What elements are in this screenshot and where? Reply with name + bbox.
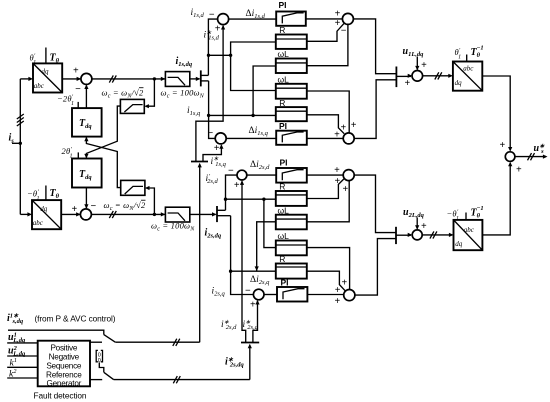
- summing junction SUM2q: [344, 290, 355, 301]
- wire: i'_2s,d branch to R3 and wL4: [226, 199, 276, 247]
- svg-text:Δi2s,q: Δi2s,q: [250, 275, 270, 286]
- svg-text:R: R: [279, 182, 285, 192]
- slash marks before TB4: [430, 231, 437, 238]
- wire: R2 out diagonal into SUM1q: [307, 115, 344, 134]
- svg-text:R: R: [279, 98, 285, 108]
- svg-text:i′2s,d: i′2s,d: [206, 173, 219, 185]
- filter block F2 (wc=100wN): [165, 207, 189, 222]
- block wL2: [276, 84, 307, 99]
- block wL1: [276, 59, 307, 74]
- wire: wL1 out up into SUM1d bottom: [307, 25, 348, 66]
- wire: SUM2d out to mux2: [354, 175, 396, 233]
- svg-text:is: is: [9, 133, 15, 145]
- block R2: [276, 107, 307, 121]
- svg-text:PI: PI: [279, 121, 287, 131]
- block wL3: [276, 215, 307, 230]
- svg-text:Generator: Generator: [46, 379, 81, 388]
- svg-text:Tθ: Tθ: [50, 188, 60, 200]
- svg-text:Tθ: Tθ: [50, 53, 60, 65]
- wire: i*_2s,dq rising line: [249, 345, 251, 380]
- wire: R4 out diagonal down into SUM2q: [307, 271, 345, 291]
- svg-text:−: −: [228, 165, 234, 176]
- wire: S2 out to filter F2: [91, 213, 165, 215]
- slash marks on output: [528, 153, 535, 160]
- svg-text:+: +: [234, 180, 240, 191]
- wire: rail to abc-dq box 2: [20, 213, 28, 215]
- node i_s tap: [12, 142, 20, 144]
- wire: u*_s output: [515, 156, 546, 158]
- wire: RF2 output crossing up into T_dq1 input: [86, 138, 120, 188]
- 3-phase slash marks on rail: [17, 114, 24, 126]
- wire: tap into RF1: [146, 79, 154, 106]
- svg-text:i∗2s,dq: i∗2s,dq: [225, 356, 244, 368]
- svg-text:+: +: [334, 129, 340, 140]
- svg-text:Fault detection: Fault detection: [34, 390, 87, 400]
- final summing junction: [505, 152, 515, 162]
- svg-text:abc: abc: [464, 226, 475, 234]
- svg-text:ωL: ωL: [278, 205, 290, 215]
- wire: S2d out to PI3: [247, 174, 276, 176]
- svg-text:+: +: [334, 176, 340, 187]
- svg-text:+: +: [516, 165, 522, 176]
- filter block F1 (wc=100wN): [165, 72, 189, 87]
- wire: u_1L,dq arrow down into circle: [416, 57, 418, 70]
- svg-text:i∗2s,d: i∗2s,d: [221, 319, 237, 331]
- svg-text:u1L,dq: u1L,dq: [8, 332, 26, 345]
- wire: PI3 out to SUM2d: [307, 174, 343, 176]
- svg-text:i1s,dq: i1s,dq: [176, 56, 193, 68]
- svg-text:+: +: [215, 24, 221, 35]
- svg-text:i2s,dq: i2s,dq: [205, 227, 222, 239]
- summing junction SUM1d: [342, 13, 353, 24]
- svg-text:abc: abc: [463, 64, 474, 72]
- svg-text:+: +: [335, 18, 341, 29]
- svg-text:+: +: [351, 120, 357, 131]
- summing junction SUM1q: [343, 133, 354, 144]
- theta1 angle stub into box 1: [45, 48, 47, 64]
- wire: S1q out to PI2: [226, 137, 276, 139]
- wire: T_dq1 output up into S1: [85, 86, 87, 109]
- mux1 bar: [395, 67, 397, 88]
- svg-text:Positive: Positive: [50, 343, 77, 352]
- svg-text:i1∗s,dq: i1∗s,dq: [7, 313, 24, 326]
- svg-text:Δi1s,q: Δi1s,q: [249, 126, 269, 137]
- wire: R1 out diagonal into SUM1d: [307, 24, 344, 42]
- svg-text:−: −: [341, 26, 347, 37]
- svg-text:+: +: [342, 184, 348, 195]
- lowpass block RF2 (wc=wN/sqrt2): [121, 180, 145, 195]
- summing junction S1d: [218, 14, 229, 25]
- svg-text:i1s,d: i1s,d: [191, 8, 205, 19]
- svg-text:i∗2s,q: i∗2s,q: [243, 319, 259, 331]
- svg-text:ωc = 100ωN: ωc = 100ωN: [151, 221, 195, 233]
- wire: R3 out diagonal up into SUM2d: [307, 179, 344, 199]
- -theta1 stub into TB4: [465, 213, 467, 220]
- wire: wL3 tap with down arrow: [257, 222, 276, 271]
- wire: S1d out to PI1: [229, 18, 277, 20]
- wire: i*_2s,d reference up into S2d: [242, 181, 246, 342]
- svg-text:Δi2s,d: Δi2s,d: [250, 160, 270, 171]
- wire: tap into RF2: [147, 188, 155, 214]
- transform box T_theta^-1 (dq to abc, -theta1): [454, 220, 483, 250]
- 2theta'1 angle stub into T_dq2: [77, 152, 79, 158]
- switch 2 blade: [104, 372, 114, 379]
- wire: PI1 out to SUM1d: [306, 18, 343, 20]
- wire: i*_2s,q reference up into S2q: [253, 301, 258, 343]
- svg-text:Δi1s,d: Δi1s,d: [246, 9, 266, 20]
- svg-text:−: −: [245, 286, 251, 297]
- wire: i*_1s,dq rising line: [199, 164, 201, 342]
- svg-text:+: +: [250, 300, 256, 311]
- wire: wL3 out up into SUM2d bottom: [307, 181, 349, 222]
- slash marks after S1: [109, 75, 116, 82]
- svg-text:R: R: [279, 254, 285, 264]
- slash marks on 2s ref line: [173, 376, 180, 383]
- wire: i*_1s,d reference up into S1d: [196, 26, 223, 162]
- wire: u2L sum out to TB4: [422, 234, 452, 236]
- block PI4: [277, 287, 307, 302]
- summing junction SUM2d: [343, 170, 354, 181]
- svg-text:Sequence: Sequence: [46, 361, 82, 370]
- svg-text:+: +: [404, 78, 410, 89]
- svg-text:PI: PI: [280, 158, 288, 168]
- wire: mux2 out to u2L sum: [396, 234, 411, 236]
- wire: u_2L,dq arrow down into circle: [416, 217, 418, 228]
- svg-text:PI: PI: [281, 277, 289, 287]
- 1s reference demux bar: [191, 161, 208, 163]
- wire: D2 q-stub: [217, 215, 231, 217]
- svg-text:abc: abc: [33, 219, 44, 227]
- slash marks after S2: [109, 211, 116, 218]
- wire: SUM2q out to mux2: [355, 239, 396, 296]
- svg-text:+: +: [499, 140, 505, 151]
- lowpass block RF1 (wc=wN/sqrt2): [120, 99, 144, 113]
- svg-text:−2θ′1: −2θ′1: [57, 93, 74, 107]
- svg-text:−: −: [209, 9, 215, 20]
- svg-text:(from P & AVC control): (from P & AVC control): [35, 314, 116, 324]
- svg-text:PI: PI: [279, 0, 287, 10]
- wire: box1 out to sum S1: [62, 78, 80, 80]
- svg-text:dq: dq: [455, 79, 463, 87]
- wire: generator out 2: [90, 379, 102, 381]
- svg-text:+: +: [335, 9, 341, 20]
- svg-text:+: +: [421, 60, 427, 71]
- wire: switch 1 out to 1s ref demux: [115, 341, 199, 343]
- wire: D1 q-stub: [201, 80, 209, 82]
- transform box T_theta (abc to dq, -theta1): [32, 200, 61, 229]
- summing junction S2d: [237, 170, 247, 180]
- block wL4: [276, 241, 307, 256]
- svg-text:+: +: [334, 165, 340, 176]
- wire: wL4 out down into SUM2q top: [307, 248, 350, 290]
- wire: D2 d-stub: [217, 209, 226, 211]
- summing junction u1L: [412, 71, 423, 82]
- wire: T_dq2 output down into S2: [85, 188, 87, 209]
- wire: i*_1s,q from ref bar up into S1q: [203, 145, 221, 161]
- wire: k2 input to generator: [7, 377, 38, 379]
- theta1 stub into TB3: [466, 55, 468, 62]
- wire: u1L sum out to TB3: [423, 75, 452, 77]
- wire: i1* line into switch 1: [8, 330, 104, 334]
- summing junction S1: [81, 73, 92, 84]
- wire: u1L input to generator: [7, 342, 38, 344]
- wire: zero vector into switch 2: [99, 362, 104, 372]
- summing junction S2q: [253, 289, 264, 300]
- mux2 bar: [395, 227, 397, 244]
- wire: S1 out to filter F1: [92, 78, 165, 80]
- wire: SUM1d out to mux1: [353, 19, 396, 74]
- demux D2 bar: [216, 206, 218, 222]
- wire: i_1s,d branch to R1 and wL2: [209, 42, 276, 91]
- switch 1 blade: [104, 335, 116, 343]
- svg-text:u1L,dq: u1L,dq: [403, 46, 425, 58]
- svg-text:−: −: [208, 128, 214, 139]
- T_dq block 2: [72, 159, 102, 188]
- svg-text:i2s,q: i2s,q: [212, 287, 226, 298]
- wire: S2q out to PI4: [264, 294, 277, 296]
- wire: generator out 1: [90, 341, 102, 343]
- svg-text:ωc = 100ωN: ωc = 100ωN: [161, 87, 205, 99]
- T_dq block 1: [72, 108, 102, 137]
- svg-text:+: +: [334, 296, 340, 307]
- wire: F2 out to demux D2: [190, 213, 216, 215]
- svg-text:θ′1: θ′1: [30, 53, 37, 67]
- svg-text:u2L,dq: u2L,dq: [8, 345, 26, 358]
- summing junction S1q: [215, 133, 226, 144]
- svg-text:ωc = ωN/√2: ωc = ωN/√2: [104, 200, 147, 212]
- svg-text:ωL: ωL: [278, 231, 290, 241]
- wire: SUM1q out to mux1: [354, 80, 396, 139]
- summing junction S2: [80, 209, 91, 220]
- svg-text:+: +: [340, 122, 346, 133]
- slash marks on 1s ref line: [173, 339, 180, 346]
- demux D1 bar: [200, 70, 202, 86]
- wire: k1 input to generator: [7, 366, 38, 368]
- svg-text:+: +: [421, 221, 427, 232]
- wire: i_1s,q branch to R2 and wL1: [209, 66, 276, 115]
- wire: TB4 out up to final sum: [482, 163, 510, 235]
- wire: wL2 out down into SUM1q top: [307, 91, 349, 133]
- block PI3: [276, 168, 307, 183]
- block PI1: [276, 12, 306, 26]
- wire: PI4 out to SUM2q: [307, 294, 343, 296]
- svg-text:abc: abc: [34, 82, 45, 90]
- svg-text:Tθ−1: Tθ−1: [471, 45, 484, 60]
- wire: i_2s,q down to S2q: [231, 216, 254, 295]
- wire: PI2 out to SUM1q: [307, 137, 343, 139]
- svg-text:i∗1s,q: i∗1s,q: [211, 156, 227, 168]
- svg-text:+: +: [214, 143, 220, 154]
- svg-text:ωL: ωL: [278, 49, 290, 59]
- wire: i_s left rail: [19, 79, 21, 215]
- wire: F1 out to demux D1: [190, 78, 200, 80]
- 2s reference demux bar: [241, 342, 259, 344]
- svg-text:ωc = ωN/√2: ωc = ωN/√2: [102, 87, 145, 99]
- transform box T_theta^-1 (dq to abc, +theta1): [453, 62, 482, 91]
- block R3: [276, 191, 307, 206]
- wire: RF1 output crossing down into T_dq2 input: [86, 106, 120, 157]
- wire: i_1s,q down to S1q: [209, 81, 215, 138]
- wire: i_1s,d up to S1d: [208, 19, 217, 75]
- wire: i_2s,q branch to R4: [231, 270, 276, 272]
- wire: TB3 out down to final sum: [482, 76, 510, 150]
- transform box T_theta (abc to dq, +theta1): [33, 63, 62, 92]
- block R4: [276, 264, 307, 279]
- slash marks before TB3: [435, 72, 442, 79]
- zero vector symbol: [96, 350, 102, 361]
- svg-text:Tθ−1: Tθ−1: [471, 205, 484, 220]
- svg-text:dq: dq: [40, 205, 48, 213]
- wire: mux1 out to u1L sum: [396, 75, 411, 77]
- svg-text:dq: dq: [42, 67, 50, 75]
- svg-text:+: +: [71, 204, 77, 215]
- svg-text:dq: dq: [455, 240, 463, 248]
- svg-text:+: +: [73, 66, 79, 77]
- generator box: [38, 341, 90, 387]
- svg-text:i1s,q: i1s,q: [187, 106, 201, 117]
- wire: rail to abc-dq box 1: [20, 78, 29, 80]
- block R1: [276, 35, 307, 49]
- block PI2: [276, 131, 307, 145]
- wire: switch 2 out to 2s ref demux: [114, 379, 250, 381]
- svg-text:u2L,dq: u2L,dq: [403, 207, 425, 219]
- -theta1 angle stub into box 2: [45, 186, 47, 201]
- svg-text:Negative: Negative: [49, 352, 80, 361]
- -2theta'1 angle stub into T_dq1: [77, 102, 79, 108]
- wire: i'_2s,d up to S2d: [226, 175, 238, 210]
- wire: D1 d-stub: [201, 74, 209, 76]
- svg-text:−: −: [75, 84, 81, 95]
- wire: u2L input to generator: [7, 355, 38, 357]
- svg-text:2θ′1: 2θ′1: [62, 146, 73, 160]
- svg-text:R: R: [279, 25, 285, 35]
- svg-text:θ′1: θ′1: [455, 47, 462, 61]
- svg-text:−: −: [91, 201, 97, 212]
- svg-text:ωL: ωL: [278, 74, 290, 84]
- svg-text:u∗s: u∗s: [534, 143, 546, 155]
- summing junction u2L: [412, 230, 422, 240]
- wire: box2 out to sum S2: [61, 213, 79, 215]
